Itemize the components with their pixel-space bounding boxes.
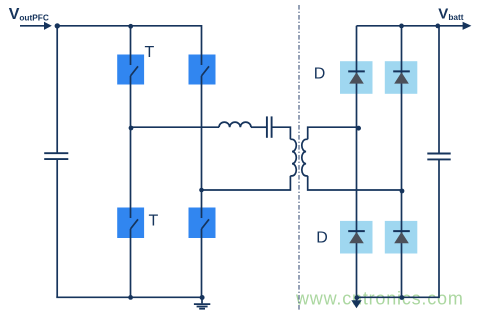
wire secondary top: [308, 127, 357, 139]
junction dot col1 bottom: [355, 295, 360, 300]
diode D2 symbol: [393, 71, 410, 83]
switch blade upper-left: [131, 66, 139, 76]
diode square D4 lower-right: [385, 221, 418, 254]
diode square D1 upper-left: [340, 61, 373, 94]
arrow battery negative down: [351, 300, 361, 308]
wire output rail lower: [357, 159, 440, 297]
diode D4 symbol: [393, 231, 410, 243]
capacitor Cout plate bottom: [427, 158, 450, 160]
wire leg1 bottom: [130, 229, 132, 297]
svg-text:D: D: [316, 230, 328, 247]
wire top rail left: [57, 26, 201, 65]
wire inductor to Cr: [251, 126, 267, 128]
svg-text:D: D: [314, 65, 326, 82]
diode square D2 upper-right: [385, 61, 418, 94]
capacitor Cin plate top: [44, 152, 68, 154]
wire leg1 middle: [130, 76, 132, 218]
ground bar 1: [194, 303, 210, 305]
switch square lower-right T: [189, 208, 216, 239]
switch square lower-left T: [117, 208, 144, 239]
ground bar 3: [199, 308, 205, 310]
junction dot col2 mid: [400, 189, 405, 194]
transformer primary winding: [290, 139, 296, 176]
wire leg2 bottom: [201, 229, 203, 297]
wire secondary bottom: [308, 176, 402, 190]
junction dot col1 mid: [356, 126, 361, 131]
switch square upper-right T: [189, 55, 216, 85]
isolation dash-dot line: [298, 5, 300, 311]
ground bar 2: [197, 306, 208, 308]
wire leg2 middle: [201, 76, 203, 218]
capacitor Cr plate right: [271, 116, 273, 137]
wire top rail right: [357, 25, 464, 27]
junction dot leg1 bottom: [128, 295, 133, 300]
diode D3 symbol: [348, 231, 365, 243]
switch blade lower-right: [202, 219, 210, 229]
wire primary bottom: [202, 176, 291, 190]
junction dot ground node: [200, 295, 205, 300]
wire output rail upper: [438, 26, 440, 154]
switch blade upper-right: [202, 66, 210, 76]
capacitor Cin plate bottom: [44, 158, 68, 160]
switch square upper-left T: [117, 55, 144, 85]
capacitor Cr plate left: [266, 116, 268, 137]
junction dot leg1 top: [128, 24, 133, 29]
svg-text:T: T: [145, 44, 155, 61]
diode square D3 lower-left: [340, 221, 373, 254]
wire rectifier column 1: [356, 26, 358, 301]
switch blade lower-left: [131, 219, 139, 229]
wire input VoutPFC: [20, 25, 45, 27]
ground stub: [201, 297, 203, 303]
svg-text:Vbatt: Vbatt: [438, 5, 463, 22]
svg-text:VoutPFC: VoutPFC: [9, 6, 49, 23]
junction dot output top: [435, 24, 440, 29]
wire Cr to primary: [272, 127, 291, 139]
junction dot col2 bottom: [399, 295, 404, 300]
wire bottom rail left: [56, 296, 202, 298]
svg-text:T: T: [149, 213, 159, 230]
junction dot input node: [55, 23, 60, 28]
diode D1 symbol: [348, 71, 365, 83]
wire leg1 top: [130, 26, 132, 65]
wire left rail upper: [56, 26, 58, 153]
wire rectifier column 2: [401, 26, 403, 298]
wire left rail lower: [56, 159, 58, 297]
arrow output Vbatt: [463, 22, 472, 30]
transformer secondary winding: [302, 139, 308, 176]
wire tank left: [131, 126, 220, 128]
junction dot leg1 tank: [129, 126, 134, 131]
junction dot col2 top: [399, 24, 404, 29]
capacitor Cout plate top: [427, 153, 450, 155]
arrow input VoutPFC: [44, 22, 52, 30]
junction dot leg2 return: [199, 188, 204, 193]
inductor Lr: [219, 122, 251, 127]
